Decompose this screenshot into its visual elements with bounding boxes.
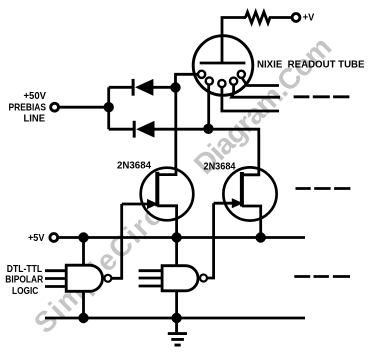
- wire U2 bottom to ground rail: [175, 291, 178, 318]
- wire prebias terminal to junction: [55, 106, 109, 109]
- transistor Q2 2N3684 envelope: [223, 167, 276, 220]
- Q2 drain lead: [242, 168, 259, 175]
- junction ground / U1: [78, 313, 88, 323]
- U2 output bubble: [200, 275, 207, 282]
- dashed continuation top: [294, 95, 350, 98]
- +5V rail: [58, 236, 305, 239]
- Q2 gate wire: [214, 202, 234, 205]
- wire pin 3 right: [222, 87, 279, 112]
- svg-text:DTL-TTL: DTL-TTL: [7, 264, 42, 275]
- Q2 channel bar: [240, 172, 244, 207]
- wire U1 bottom to ground rail: [82, 291, 85, 318]
- diode D1 anode wire: [109, 86, 133, 89]
- Q2 source lead: [242, 206, 261, 238]
- resistor R1: [246, 12, 293, 23]
- U1 input wires: [45, 271, 66, 287]
- nixie anode lead: [221, 36, 224, 62]
- NAND gate U2 body: [162, 266, 198, 291]
- junction prebias input: [104, 102, 114, 112]
- svg-text:PREBIAS: PREBIAS: [9, 102, 47, 113]
- Q1 drain lead: [157, 168, 176, 175]
- nixie pin 3: [218, 80, 225, 87]
- junction +5V / U1: [78, 232, 88, 242]
- nixie pin 5: [238, 71, 245, 78]
- wire pin 4 right: [232, 85, 281, 98]
- diode D1 cathode wire: [153, 86, 176, 89]
- nixie tube V1 envelope: [193, 36, 253, 96]
- junction +5V / Q2 source: [256, 232, 266, 242]
- ground rail: [45, 317, 305, 320]
- wire junction to tube pin 1: [176, 74, 200, 87]
- Q1 gate vertical to U1 output: [112, 204, 122, 278]
- terminal +5V: [50, 234, 58, 242]
- Q2 gate arrow: [232, 198, 243, 208]
- wire prebias vertical: [107, 87, 110, 129]
- terminal +50V prebias: [51, 103, 59, 111]
- nixie pin 1: [198, 71, 205, 78]
- wire pin 5 right: [242, 78, 279, 86]
- wire pin 2 down to junction: [207, 84, 210, 129]
- transistor Q1 2N3684 envelope: [141, 168, 194, 221]
- junction +5V / Q1 source: [171, 232, 181, 242]
- terminal +V: [292, 14, 300, 22]
- svg-text:NIXIE READOUT TUBE: NIXIE READOUT TUBE: [257, 59, 365, 70]
- svg-text:+50V: +50V: [24, 91, 47, 102]
- dashed continuation bottom: [294, 275, 350, 278]
- svg-text:2N3684: 2N3684: [117, 160, 151, 171]
- svg-text:2N3684: 2N3684: [204, 161, 236, 172]
- Q1 gate arrow: [147, 199, 158, 209]
- junction ground / U2: [171, 313, 181, 323]
- nixie anode plate: [200, 62, 246, 65]
- junction D1 cathode: [170, 82, 180, 92]
- U1 output bubble: [104, 275, 111, 282]
- diode D2 anode wire: [109, 128, 135, 131]
- diode D1: [135, 79, 153, 96]
- wire +5V to U1 top: [82, 238, 85, 266]
- nixie pin 4: [230, 78, 237, 85]
- Q2 gate vertical to U2 output: [208, 203, 214, 278]
- svg-text:BIPOLAR: BIPOLAR: [5, 275, 44, 286]
- Q1 gate wire: [122, 203, 149, 206]
- wire prebias to Q1 drain: [157, 88, 176, 175]
- U2 input wires: [139, 271, 163, 286]
- Q1 channel bar: [155, 172, 159, 207]
- nixie pin 2: [206, 77, 213, 84]
- diode D2: [136, 121, 154, 138]
- svg-text:LINE: LINE: [24, 114, 46, 125]
- Q1 source lead: [157, 206, 176, 238]
- wire D2 cathode to right drain: [154, 129, 259, 176]
- ground symbol: [168, 318, 187, 345]
- svg-text:+5V: +5V: [28, 233, 45, 244]
- svg-text:+V: +V: [303, 13, 315, 24]
- svg-text:LOGIC: LOGIC: [12, 286, 38, 297]
- junction pin2/D2: [203, 124, 213, 134]
- NAND gate U1 body: [66, 265, 102, 291]
- wire anode to resistor: [222, 18, 246, 37]
- dashed continuation middle: [296, 187, 351, 190]
- wire +5V to U2 top: [175, 238, 178, 266]
